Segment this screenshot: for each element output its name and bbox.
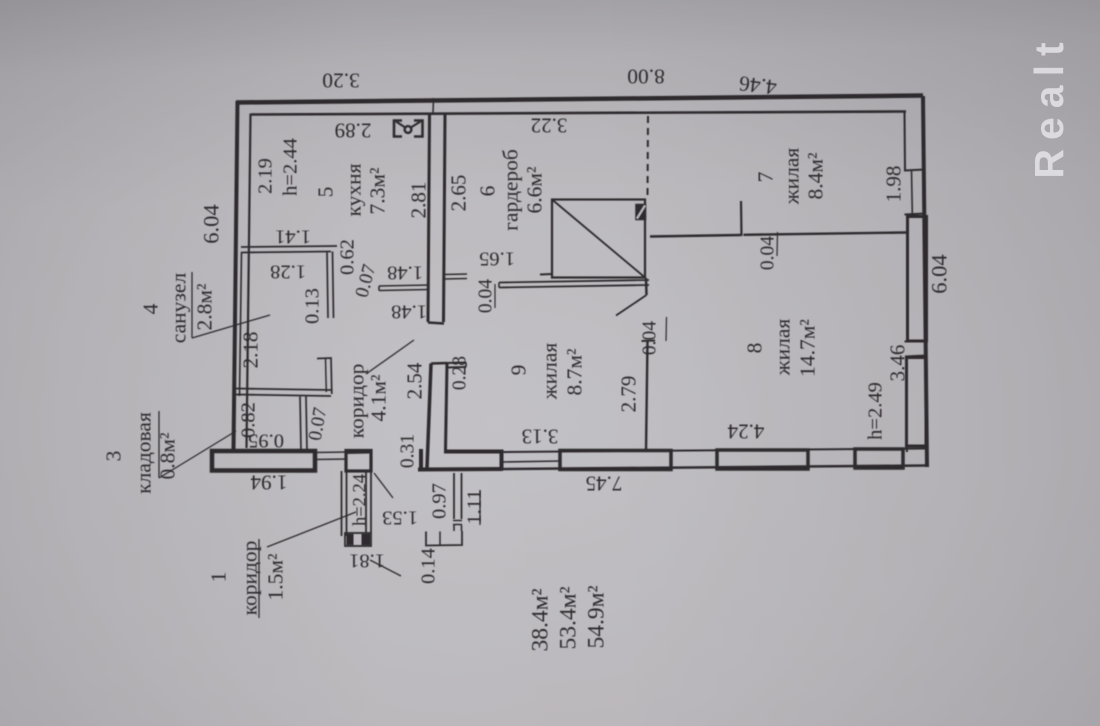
- storeroom east wall b: [306, 397, 307, 452]
- svg-text:2.65: 2.65: [447, 175, 471, 212]
- svg-text:2.8м²: 2.8м²: [193, 284, 217, 331]
- svg-text:0.04: 0.04: [640, 321, 661, 355]
- wall 7-8 west: [650, 235, 741, 237]
- underline 0.04 room7: [776, 232, 779, 256]
- wall bottom top line: [447, 449, 926, 453]
- svg-text:2.79: 2.79: [617, 376, 641, 413]
- bathroom right wall a: [327, 252, 328, 319]
- svg-text:санузел: санузел: [167, 273, 191, 344]
- kitchen vent flap b: [410, 122, 421, 129]
- svg-text:Realt: Realt: [1026, 33, 1072, 178]
- svg-text:жилая: жилая: [771, 319, 795, 377]
- kitchen vent bracket right: [414, 121, 423, 137]
- window7 tick bottom: [905, 214, 926, 215]
- wall left inner: [247, 114, 251, 449]
- svg-text:6.6м²: 6.6м²: [523, 167, 547, 214]
- svg-text:6.04: 6.04: [199, 204, 224, 243]
- wardrobe south wall east b: [499, 285, 649, 288]
- wall 3.13 sill line: [503, 461, 561, 462]
- svg-text:коридор: коридор: [345, 364, 369, 439]
- svg-text:0.97: 0.97: [429, 483, 451, 519]
- window bottom 2: [717, 450, 808, 469]
- svg-text:жилая: жилая: [538, 343, 562, 401]
- svg-text:2.81: 2.81: [407, 182, 431, 219]
- window gap tick a: [905, 341, 927, 342]
- steps wall a: [453, 473, 455, 519]
- wall 9-8 top tick: [642, 340, 656, 343]
- svg-text:8.7м²: 8.7м²: [563, 349, 587, 396]
- wall 9-8: [646, 341, 648, 451]
- window bottom 1: [560, 451, 671, 470]
- closet diagonal: [552, 200, 645, 278]
- svg-text:1.11: 1.11: [464, 489, 486, 524]
- svg-text:7: 7: [754, 171, 778, 182]
- porch wall left a: [341, 471, 343, 536]
- porch bottom dark b: [362, 535, 370, 545]
- window gap tick b: [905, 356, 927, 357]
- wall bottom bottom line: [448, 466, 928, 470]
- wall bottom entry corner top: [444, 452, 502, 470]
- door leaf room7: [740, 201, 743, 236]
- svg-text:8: 8: [743, 343, 767, 354]
- storeroom south thick wall: [212, 451, 315, 471]
- dashed wall 6-7: [647, 116, 650, 198]
- svg-text:3.22: 3.22: [531, 114, 568, 138]
- svg-text:1.65: 1.65: [479, 248, 515, 270]
- svg-text:1: 1: [207, 572, 231, 583]
- stub wall line a: [379, 285, 429, 286]
- svg-text:1.94: 1.94: [250, 471, 287, 495]
- wardrobe south wall tick: [498, 283, 500, 288]
- window bottom 3: [855, 449, 903, 468]
- steps wall b: [461, 473, 463, 519]
- window7 tick top: [904, 170, 925, 171]
- porch wall left b: [346, 471, 348, 536]
- leader 1.53: [374, 473, 393, 498]
- svg-text:h=2.24: h=2.24: [351, 474, 371, 526]
- svg-text:h=2.44: h=2.44: [280, 138, 302, 196]
- svg-text:2.89: 2.89: [335, 119, 372, 143]
- corridor wall jog b: [447, 366, 466, 369]
- svg-text:8.4м²: 8.4м²: [804, 153, 828, 200]
- svg-text:1.48: 1.48: [387, 262, 423, 284]
- bathroom door jamb inner: [325, 359, 328, 393]
- corridor wall top cap: [431, 362, 447, 365]
- entry tambour box: [346, 451, 371, 472]
- svg-text:38.4м²: 38.4м²: [528, 588, 554, 651]
- svg-text:54.9м²: 54.9м²: [584, 585, 610, 648]
- porch wall right a: [365, 471, 367, 533]
- svg-text:3: 3: [102, 451, 126, 462]
- svg-text:0.04: 0.04: [758, 236, 779, 270]
- corridor wall east b: [446, 364, 448, 451]
- wall top outer: [236, 96, 923, 103]
- entry tambour top: [346, 451, 371, 455]
- underline 1.11: [479, 490, 481, 525]
- svg-text:4.24: 4.24: [727, 420, 764, 444]
- svg-text:0.28: 0.28: [450, 356, 471, 390]
- svg-text:1.28: 1.28: [270, 261, 306, 283]
- svg-text:0.04: 0.04: [476, 279, 497, 313]
- porch bottom box: [345, 533, 371, 546]
- leader 1.81: [370, 560, 401, 576]
- svg-text:4: 4: [139, 303, 163, 314]
- svg-text:3.20: 3.20: [322, 69, 360, 93]
- wardrobe south wall east a: [499, 280, 649, 283]
- svg-text:1.41: 1.41: [275, 226, 311, 248]
- svg-text:1.98: 1.98: [882, 166, 906, 203]
- wall top inner: [251, 112, 906, 115]
- closet box: [552, 200, 645, 278]
- bathroom bottom wall a: [235, 389, 331, 391]
- svg-text:6: 6: [476, 185, 500, 196]
- storeroom east wall a: [300, 397, 301, 452]
- partition x430 line a: [428, 114, 430, 322]
- entry notch vertical: [419, 449, 423, 471]
- underline kladovaya: [158, 411, 160, 478]
- entry door line b: [315, 458, 347, 461]
- svg-text:9: 9: [507, 365, 531, 376]
- underline koridor1: [258, 539, 260, 618]
- closet corner slash: [637, 206, 645, 219]
- wall 7-8 east: [744, 233, 907, 235]
- svg-text:2.19: 2.19: [255, 158, 277, 194]
- svg-text:5: 5: [314, 187, 338, 198]
- svg-text:0.14: 0.14: [418, 548, 440, 584]
- wall left outer: [234, 101, 238, 450]
- steps wall a2: [453, 525, 455, 531]
- underline 0.04 wardrobe: [494, 284, 496, 308]
- wall bottom entry bottom line: [418, 467, 503, 472]
- bathroom right wall b: [333, 252, 334, 319]
- svg-text:кухня: кухня: [342, 163, 366, 216]
- svg-text:0.31: 0.31: [398, 434, 419, 468]
- svg-text:4.1м²: 4.1м²: [367, 375, 391, 422]
- wall right outer: [923, 96, 927, 467]
- svg-text:2.18: 2.18: [239, 332, 263, 369]
- svg-text:4.46: 4.46: [737, 71, 778, 99]
- svg-text:6.04: 6.04: [927, 254, 952, 293]
- wall right inner seg1: [904, 113, 907, 171]
- wardrobe south wall west a: [444, 273, 467, 276]
- svg-text:14.7м²: 14.7м²: [796, 319, 820, 377]
- leader corridor2 label: [366, 340, 414, 374]
- leader corridor1 label: [267, 512, 356, 547]
- svg-text:гардероб: гардероб: [499, 149, 523, 231]
- wall right inner seg2: [906, 445, 909, 452]
- wardrobe south wall west b: [444, 278, 467, 281]
- steps mark b: [453, 524, 462, 526]
- porch wall right b: [370, 471, 372, 533]
- closet dark corner: [636, 205, 646, 220]
- window right mid: [908, 217, 927, 342]
- svg-text:h=2.49: h=2.49: [865, 382, 887, 440]
- top wall annex seam: [432, 98, 435, 113]
- kitchen vent flap a: [396, 122, 406, 129]
- corridor wall jog a: [447, 362, 466, 365]
- underline sanuzel: [191, 272, 193, 338]
- bathroom bottom wall b: [235, 395, 331, 397]
- corridor wall east a: [427, 364, 431, 469]
- svg-text:жилая: жилая: [780, 148, 804, 206]
- stub wall end tick: [378, 286, 380, 291]
- svg-text:1.81: 1.81: [349, 550, 385, 572]
- svg-text:3.13: 3.13: [522, 425, 559, 449]
- steps wall b2: [461, 525, 463, 531]
- svg-text:3.46: 3.46: [886, 345, 910, 382]
- underline 0.04 room9: [665, 317, 668, 341]
- svg-text:0.8м²: 0.8м²: [156, 433, 180, 480]
- svg-text:2.54: 2.54: [403, 362, 427, 399]
- svg-text:7.3м²: 7.3м²: [366, 168, 390, 215]
- svg-text:7.45: 7.45: [586, 472, 623, 496]
- window7 frame a: [911, 170, 914, 214]
- partition x430 line b: [444, 114, 446, 322]
- closet door swing: [616, 295, 647, 316]
- bathroom left wall a: [240, 252, 242, 396]
- svg-text:1.5м²: 1.5м²: [264, 554, 288, 601]
- svg-text:кладовая: кладовая: [132, 412, 156, 494]
- svg-text:8.00: 8.00: [627, 65, 665, 89]
- window right low: [907, 358, 927, 447]
- steps bottom inner: [439, 532, 441, 546]
- entry door line a: [315, 451, 347, 454]
- svg-text:0.62: 0.62: [337, 239, 359, 275]
- kitchen south wall line a: [241, 246, 337, 247]
- svg-text:1.48: 1.48: [391, 301, 427, 323]
- kitchen vent circle: [405, 126, 412, 133]
- closet right stub: [645, 278, 648, 295]
- partition x430 cap: [428, 323, 444, 324]
- stub wall line b: [379, 290, 429, 291]
- porch bottom dark a: [347, 535, 353, 545]
- steps bottom box: [426, 531, 462, 546]
- kitchen south wall line b: [241, 252, 331, 253]
- svg-text:0.95: 0.95: [248, 430, 284, 452]
- svg-text:1.53: 1.53: [382, 507, 418, 529]
- kitchen vent bracket left: [394, 121, 402, 137]
- svg-text:53.4м²: 53.4м²: [556, 586, 582, 649]
- svg-text:0.13: 0.13: [302, 288, 324, 324]
- steps mark a: [453, 520, 462, 522]
- leader storeroom label: [159, 431, 236, 478]
- closet bottom tick: [540, 273, 552, 276]
- leader bathroom label: [192, 315, 270, 338]
- corridor wall jog tick: [465, 363, 467, 368]
- svg-text:коридор: коридор: [238, 541, 262, 616]
- bathroom door jamb: [317, 358, 332, 394]
